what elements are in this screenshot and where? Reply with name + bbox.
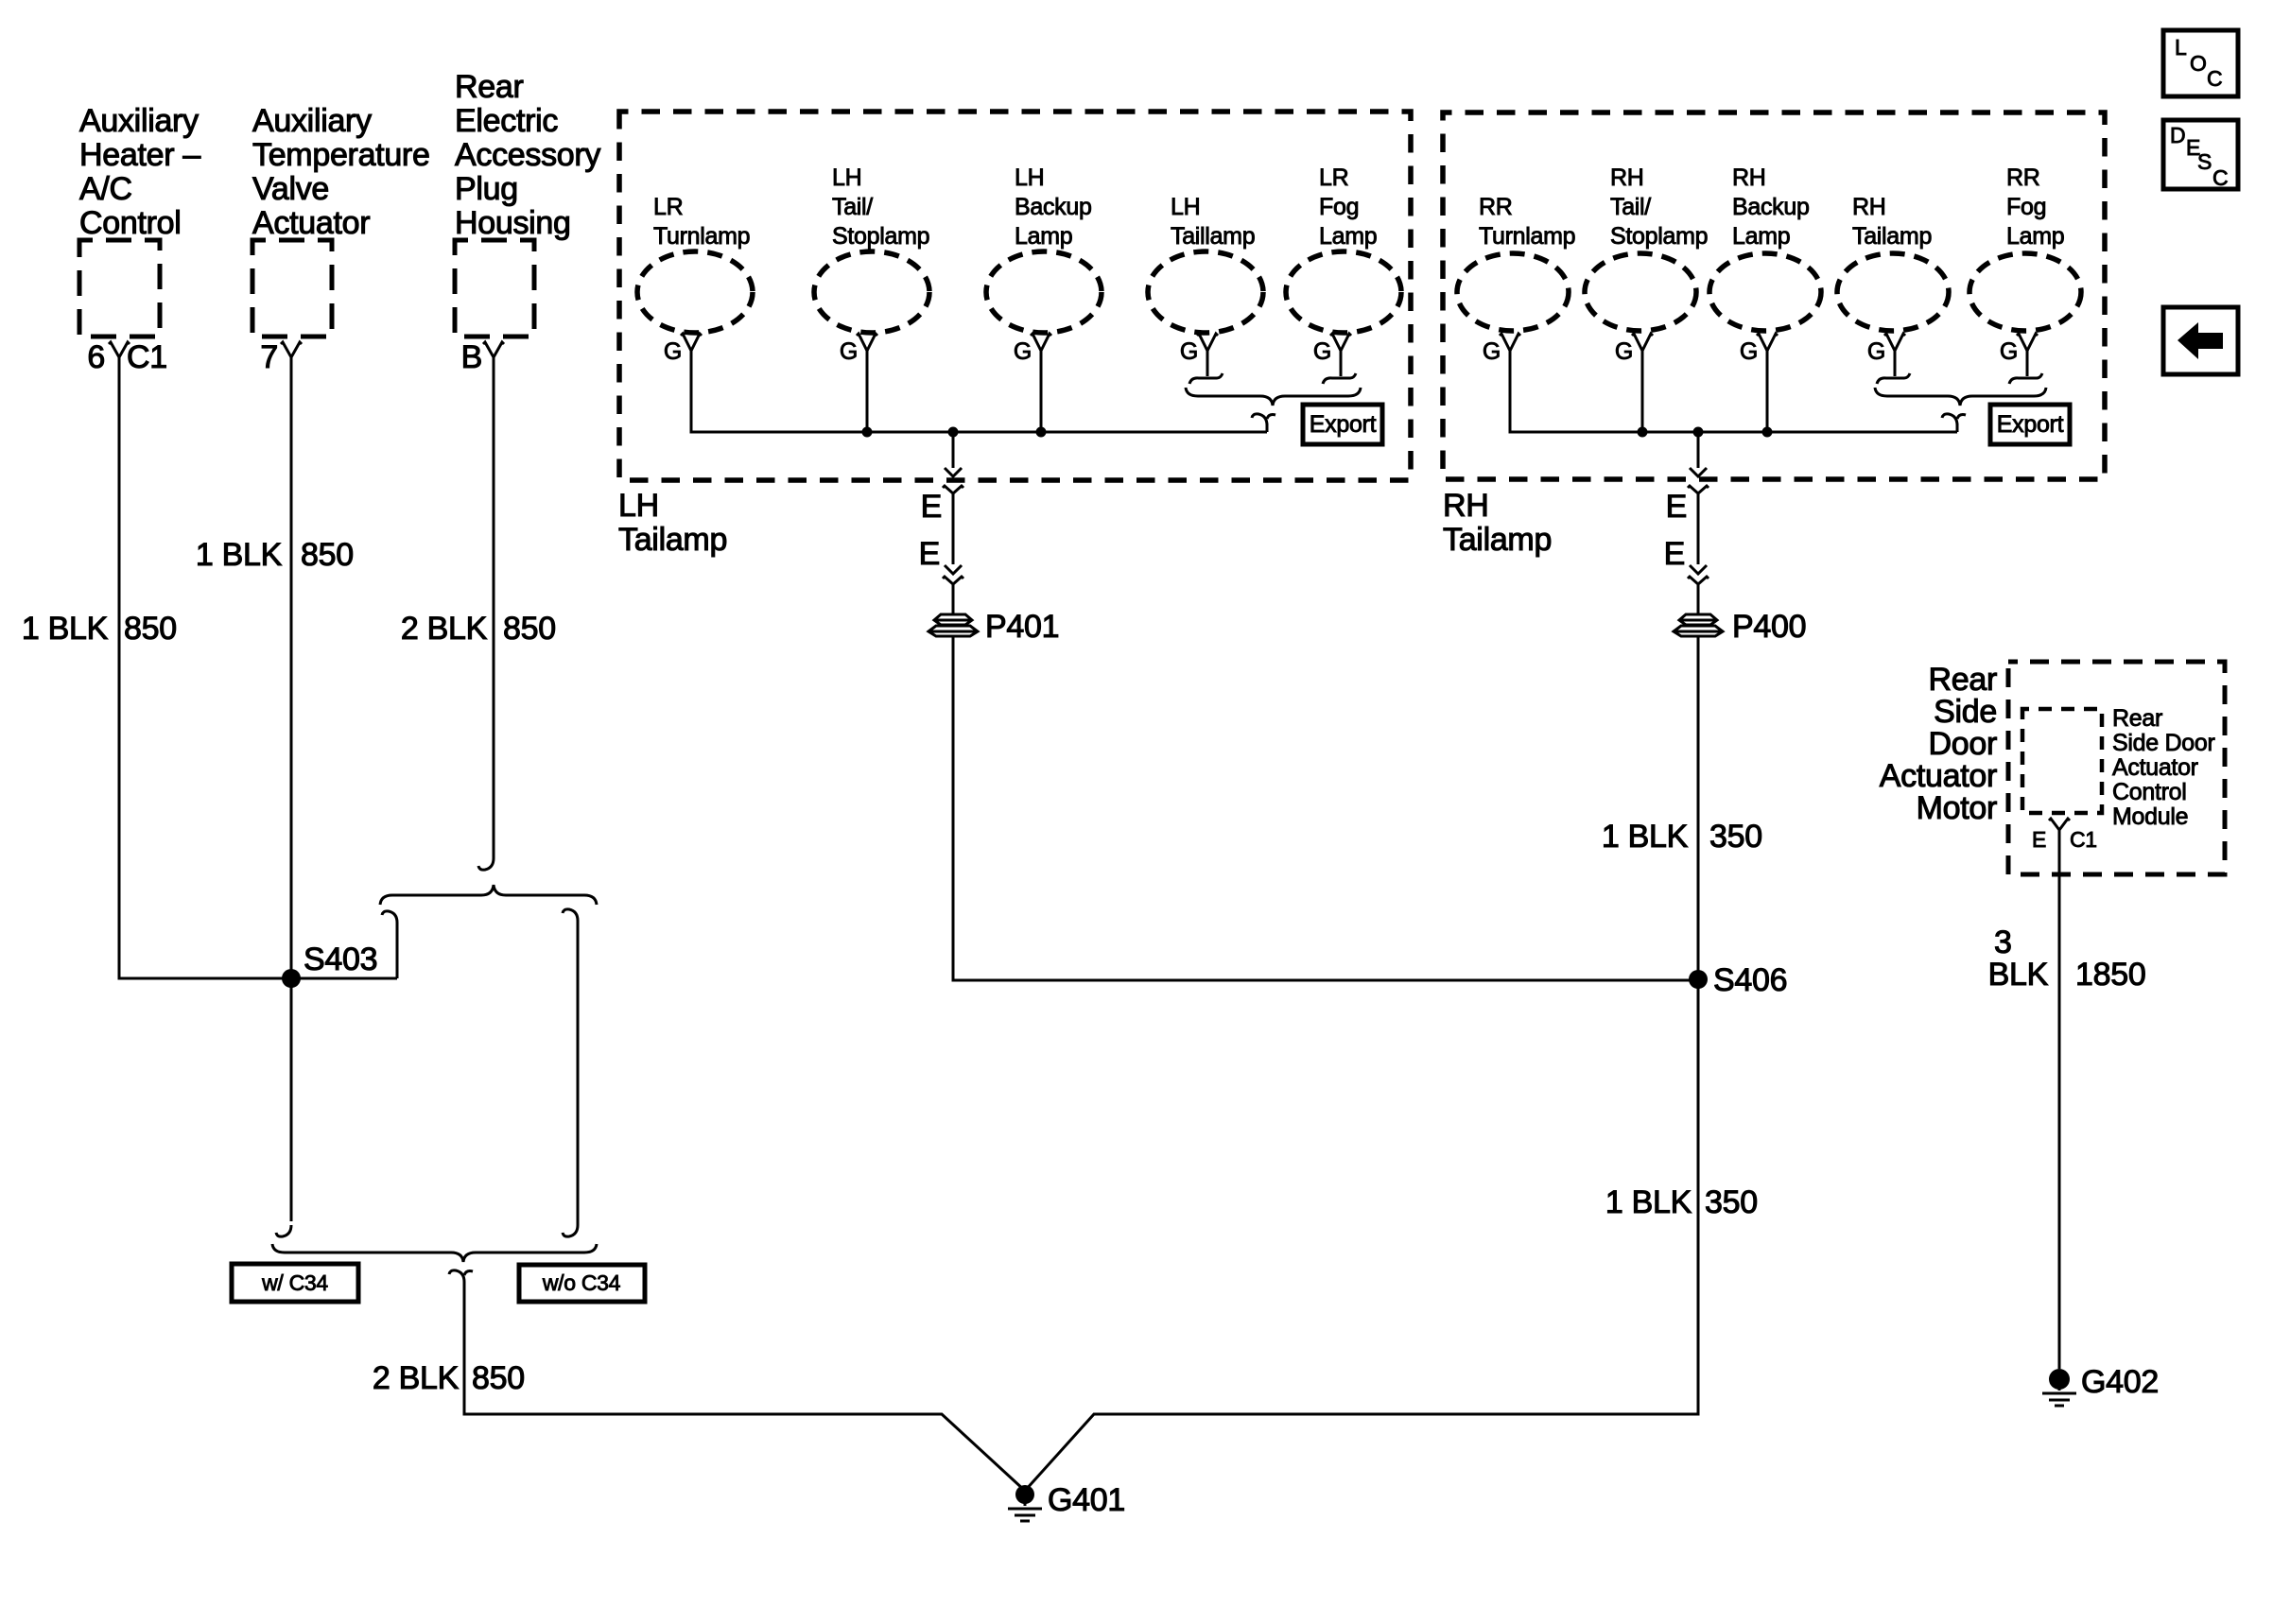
svg-text:LH: LH bbox=[832, 164, 861, 191]
w/ C34 branch left leg bbox=[382, 911, 397, 923]
lamp RH Tail/Stoplamp bbox=[1585, 164, 1708, 365]
DESC nav box bbox=[2163, 120, 2238, 189]
svg-text:1 BLK: 1 BLK bbox=[1602, 819, 1689, 855]
svg-text:LR: LR bbox=[653, 194, 683, 220]
svg-text:Actuator: Actuator bbox=[2112, 754, 2198, 781]
svg-text:G: G bbox=[2000, 338, 2018, 365]
svg-text:RH: RH bbox=[1732, 164, 1766, 191]
svg-text:G: G bbox=[1867, 338, 1885, 365]
Rear Electric Accessory Plug Housing connector box bbox=[455, 240, 534, 337]
svg-text:G: G bbox=[1014, 338, 1032, 365]
svg-text:Fog: Fog bbox=[2006, 194, 2046, 220]
svg-text:Turnlamp: Turnlamp bbox=[653, 223, 750, 250]
svg-text:G: G bbox=[1483, 338, 1501, 365]
option merge brace (bottom) bbox=[272, 1244, 597, 1262]
svg-text:1850: 1850 bbox=[2075, 957, 2145, 993]
w/ C34 option box bbox=[232, 1264, 358, 1302]
svg-text:2 BLK: 2 BLK bbox=[373, 1360, 460, 1396]
svg-text:BLK: BLK bbox=[1988, 957, 2049, 993]
svg-text:850: 850 bbox=[124, 611, 177, 647]
junction dot stoplamp bbox=[862, 427, 873, 438]
LH bus riser to Export brace bbox=[1266, 423, 1269, 432]
svg-text:B: B bbox=[461, 339, 482, 375]
svg-text:2 BLK: 2 BLK bbox=[401, 611, 488, 647]
svg-text:Tailamp: Tailamp bbox=[1852, 223, 1932, 250]
wire LR Turnlamp ground lead and LH ground bus bbox=[691, 351, 1267, 432]
lamp RR Turnlamp bbox=[1457, 194, 1575, 365]
wire 2 BLK 850 from option merge down to G401 bbox=[449, 1270, 473, 1282]
grommet P401 bbox=[928, 614, 978, 636]
RH bus riser to Export brace bbox=[1956, 423, 1959, 432]
connector E C1 of actuator module bbox=[2049, 819, 2070, 830]
svg-text:Taillamp: Taillamp bbox=[1171, 223, 1255, 250]
Rear Side Door Actuator Control Module inner dashed box bbox=[2022, 709, 2102, 813]
hook at end of pin B wire bbox=[478, 858, 494, 870]
grommet P400 bbox=[1674, 614, 1723, 636]
wire E to in-line connector bbox=[952, 493, 955, 564]
lamp RH Tailamp bbox=[1837, 194, 1949, 384]
svg-text:Auxiliary: Auxiliary bbox=[79, 103, 199, 139]
svg-text:L: L bbox=[2175, 35, 2187, 60]
pin 6 C1 connector bbox=[109, 342, 130, 357]
svg-text:Tailamp: Tailamp bbox=[618, 522, 727, 558]
svg-text:Rear: Rear bbox=[2112, 705, 2162, 732]
w/o C34 option box bbox=[519, 1265, 645, 1302]
svg-text:Backup: Backup bbox=[1015, 194, 1092, 220]
wire 1 BLK 850 from pin 7 down through S403 bbox=[290, 357, 293, 1221]
Export tag box (LH) bbox=[1303, 405, 1382, 444]
junction dot LH drop bbox=[948, 427, 959, 438]
svg-text:G: G bbox=[1313, 338, 1331, 365]
svg-text:Housing: Housing bbox=[455, 205, 571, 241]
svg-text:E: E bbox=[919, 536, 940, 572]
svg-text:Tail/: Tail/ bbox=[1610, 194, 1651, 220]
junction dot backup lamp bbox=[1036, 427, 1047, 438]
svg-text:P401: P401 bbox=[985, 609, 1059, 645]
svg-text:1 BLK: 1 BLK bbox=[196, 537, 283, 573]
ground G402 symbol bbox=[2049, 1369, 2070, 1390]
Export tag box (RH) bbox=[1990, 405, 2070, 444]
svg-text:Turnlamp: Turnlamp bbox=[1479, 223, 1575, 250]
hook at bottom of S403 wire bbox=[276, 1225, 291, 1236]
svg-text:Side: Side bbox=[1934, 694, 1997, 730]
RH ground drop wire with arrow bbox=[1697, 432, 1700, 468]
LH drop connector E below box bbox=[943, 486, 963, 493]
svg-text:LH: LH bbox=[1015, 164, 1044, 191]
pin 7 connector bbox=[281, 342, 302, 357]
svg-text:S: S bbox=[2197, 149, 2212, 174]
Auxiliary Temperature Valve Actuator connector box bbox=[252, 240, 332, 337]
junction dot RH drop bbox=[1693, 427, 1704, 438]
w/o C34 branch right leg bbox=[563, 909, 578, 921]
svg-text:1 BLK: 1 BLK bbox=[22, 611, 109, 647]
svg-text:G402: G402 bbox=[2081, 1364, 2159, 1400]
svg-text:D: D bbox=[2170, 123, 2185, 147]
wire RH Tail/Stoplamp ground lead bbox=[1641, 351, 1644, 432]
svg-text:G401: G401 bbox=[1048, 1482, 1125, 1518]
wire P401 down and over to S406 bbox=[953, 636, 1698, 980]
wire E to in-line connector bbox=[1697, 493, 1700, 564]
svg-text:Lamp: Lamp bbox=[2006, 223, 2064, 250]
svg-text:Export: Export bbox=[1310, 411, 1377, 438]
svg-text:6: 6 bbox=[87, 339, 105, 375]
svg-text:Rear: Rear bbox=[1929, 662, 1998, 698]
svg-text:Control: Control bbox=[2112, 779, 2187, 805]
svg-text:Valve: Valve bbox=[252, 171, 329, 207]
svg-text:RR: RR bbox=[1479, 194, 1513, 220]
svg-text:RH: RH bbox=[1443, 488, 1489, 524]
svg-text:w/ C34: w/ C34 bbox=[261, 1270, 328, 1295]
Export option brace (LH) bbox=[1186, 388, 1361, 406]
svg-text:Actuator: Actuator bbox=[252, 205, 370, 241]
svg-text:P400: P400 bbox=[1732, 609, 1806, 645]
pin B connector bbox=[483, 342, 504, 357]
wire LH Backup Lamp ground lead bbox=[1040, 351, 1043, 432]
LH ground drop wire with arrow bbox=[952, 432, 955, 468]
svg-text:G: G bbox=[840, 338, 858, 365]
svg-text:1 BLK: 1 BLK bbox=[1605, 1184, 1692, 1220]
svg-text:Side Door: Side Door bbox=[2112, 730, 2214, 756]
splice S406 junction dot bbox=[1689, 970, 1708, 989]
svg-text:3: 3 bbox=[1994, 924, 2012, 960]
Auxiliary Heater A/C Control connector box bbox=[79, 240, 160, 337]
svg-text:LH: LH bbox=[618, 488, 659, 524]
svg-text:O: O bbox=[2190, 51, 2207, 76]
wire 2 BLK 850 from pin B down to option brace bbox=[493, 357, 495, 858]
svg-text:850: 850 bbox=[472, 1360, 525, 1396]
svg-text:7: 7 bbox=[260, 339, 278, 375]
svg-text:LR: LR bbox=[1319, 164, 1348, 191]
svg-text:E: E bbox=[1664, 536, 1685, 572]
svg-text:RR: RR bbox=[2006, 164, 2040, 191]
svg-text:Stoplamp: Stoplamp bbox=[832, 223, 929, 250]
svg-text:Auxiliary: Auxiliary bbox=[252, 103, 372, 139]
RH Tailamp assembly dashed box bbox=[1443, 112, 2105, 479]
svg-text:E: E bbox=[1666, 489, 1687, 525]
svg-text:Backup: Backup bbox=[1732, 194, 1810, 220]
svg-text:850: 850 bbox=[503, 611, 556, 647]
lamp LH Taillamp bbox=[1148, 194, 1263, 384]
svg-text:Electric: Electric bbox=[455, 103, 558, 139]
wire RH Backup Lamp ground lead bbox=[1766, 351, 1769, 432]
svg-text:Tailamp: Tailamp bbox=[1443, 522, 1552, 558]
svg-text:Accessory: Accessory bbox=[455, 137, 600, 173]
svg-text:Heater –: Heater – bbox=[79, 137, 200, 173]
Export option brace (RH) bbox=[1875, 388, 2046, 406]
svg-text:S406: S406 bbox=[1713, 962, 1787, 998]
wire from G401 up to S406 branch bbox=[1025, 979, 1698, 1491]
svg-text:Plug: Plug bbox=[455, 171, 518, 207]
svg-text:G: G bbox=[1615, 338, 1633, 365]
lamp LH Backup Lamp bbox=[986, 164, 1102, 365]
svg-text:Actuator: Actuator bbox=[1880, 758, 1997, 794]
svg-text:G: G bbox=[1180, 338, 1198, 365]
lamp LR Fog Lamp bbox=[1286, 164, 1401, 384]
splice S403 junction dot bbox=[282, 969, 301, 988]
lamp RH Backup Lamp bbox=[1709, 164, 1821, 365]
svg-text:S403: S403 bbox=[304, 942, 377, 977]
svg-text:Control: Control bbox=[79, 205, 182, 241]
svg-text:Temperature: Temperature bbox=[252, 137, 430, 173]
svg-text:RH: RH bbox=[1852, 194, 1886, 220]
svg-text:E: E bbox=[2032, 827, 2046, 852]
Rear Side Door Actuator Motor outer dashed box bbox=[2008, 662, 2225, 874]
svg-text:w/o C34: w/o C34 bbox=[542, 1270, 621, 1295]
svg-text:Stoplamp: Stoplamp bbox=[1610, 223, 1708, 250]
wire RR Turnlamp ground lead and RH ground bus bbox=[1510, 351, 1957, 432]
junction dot RH stoplamp bbox=[1638, 427, 1648, 438]
lamp LR Turnlamp bbox=[637, 194, 753, 365]
LOC nav box bbox=[2163, 30, 2238, 96]
svg-text:Export: Export bbox=[1997, 411, 2064, 438]
svg-text:RH: RH bbox=[1610, 164, 1644, 191]
svg-text:850: 850 bbox=[301, 537, 354, 573]
svg-text:Motor: Motor bbox=[1917, 790, 1997, 826]
lamp LH Tail/Stoplamp bbox=[814, 164, 929, 365]
back arrow nav box bbox=[2163, 307, 2238, 374]
svg-text:G: G bbox=[664, 338, 682, 365]
svg-text:LH: LH bbox=[1171, 194, 1200, 220]
LH Tailamp assembly dashed box bbox=[619, 112, 1411, 480]
svg-text:350: 350 bbox=[1709, 819, 1762, 855]
svg-text:Lamp: Lamp bbox=[1732, 223, 1790, 250]
svg-text:Fog: Fog bbox=[1319, 194, 1359, 220]
svg-text:A/C: A/C bbox=[79, 171, 132, 207]
lamp RR Fog Lamp bbox=[1969, 164, 2081, 384]
RH drop connector E below box bbox=[1688, 486, 1709, 493]
svg-text:Tail/: Tail/ bbox=[832, 194, 873, 220]
svg-text:C: C bbox=[2207, 66, 2222, 91]
svg-text:Lamp: Lamp bbox=[1319, 223, 1377, 250]
svg-text:C: C bbox=[2212, 165, 2228, 190]
wire 1 BLK 350 from P400 to S406 bbox=[1697, 636, 1700, 979]
svg-text:Lamp: Lamp bbox=[1015, 223, 1072, 250]
svg-text:Door: Door bbox=[1929, 726, 1998, 762]
wire LH Tail/Stoplamp ground lead bbox=[866, 351, 869, 432]
svg-text:350: 350 bbox=[1705, 1184, 1758, 1220]
svg-text:E: E bbox=[921, 489, 942, 525]
svg-text:C1: C1 bbox=[2070, 827, 2097, 852]
wire 1 BLK 850 from pin 6 down to S403 bbox=[119, 357, 291, 978]
wire 3 BLK 1850 from module to G402 bbox=[2058, 830, 2061, 1369]
junction dot RH backup lamp bbox=[1762, 427, 1773, 438]
svg-text:Rear: Rear bbox=[455, 69, 524, 105]
svg-text:G: G bbox=[1740, 338, 1758, 365]
svg-text:Module: Module bbox=[2112, 803, 2188, 830]
svg-text:C1: C1 bbox=[127, 339, 167, 375]
option split brace (top) under pin B wire bbox=[380, 885, 597, 905]
ground G401 symbol bbox=[1015, 1485, 1034, 1504]
